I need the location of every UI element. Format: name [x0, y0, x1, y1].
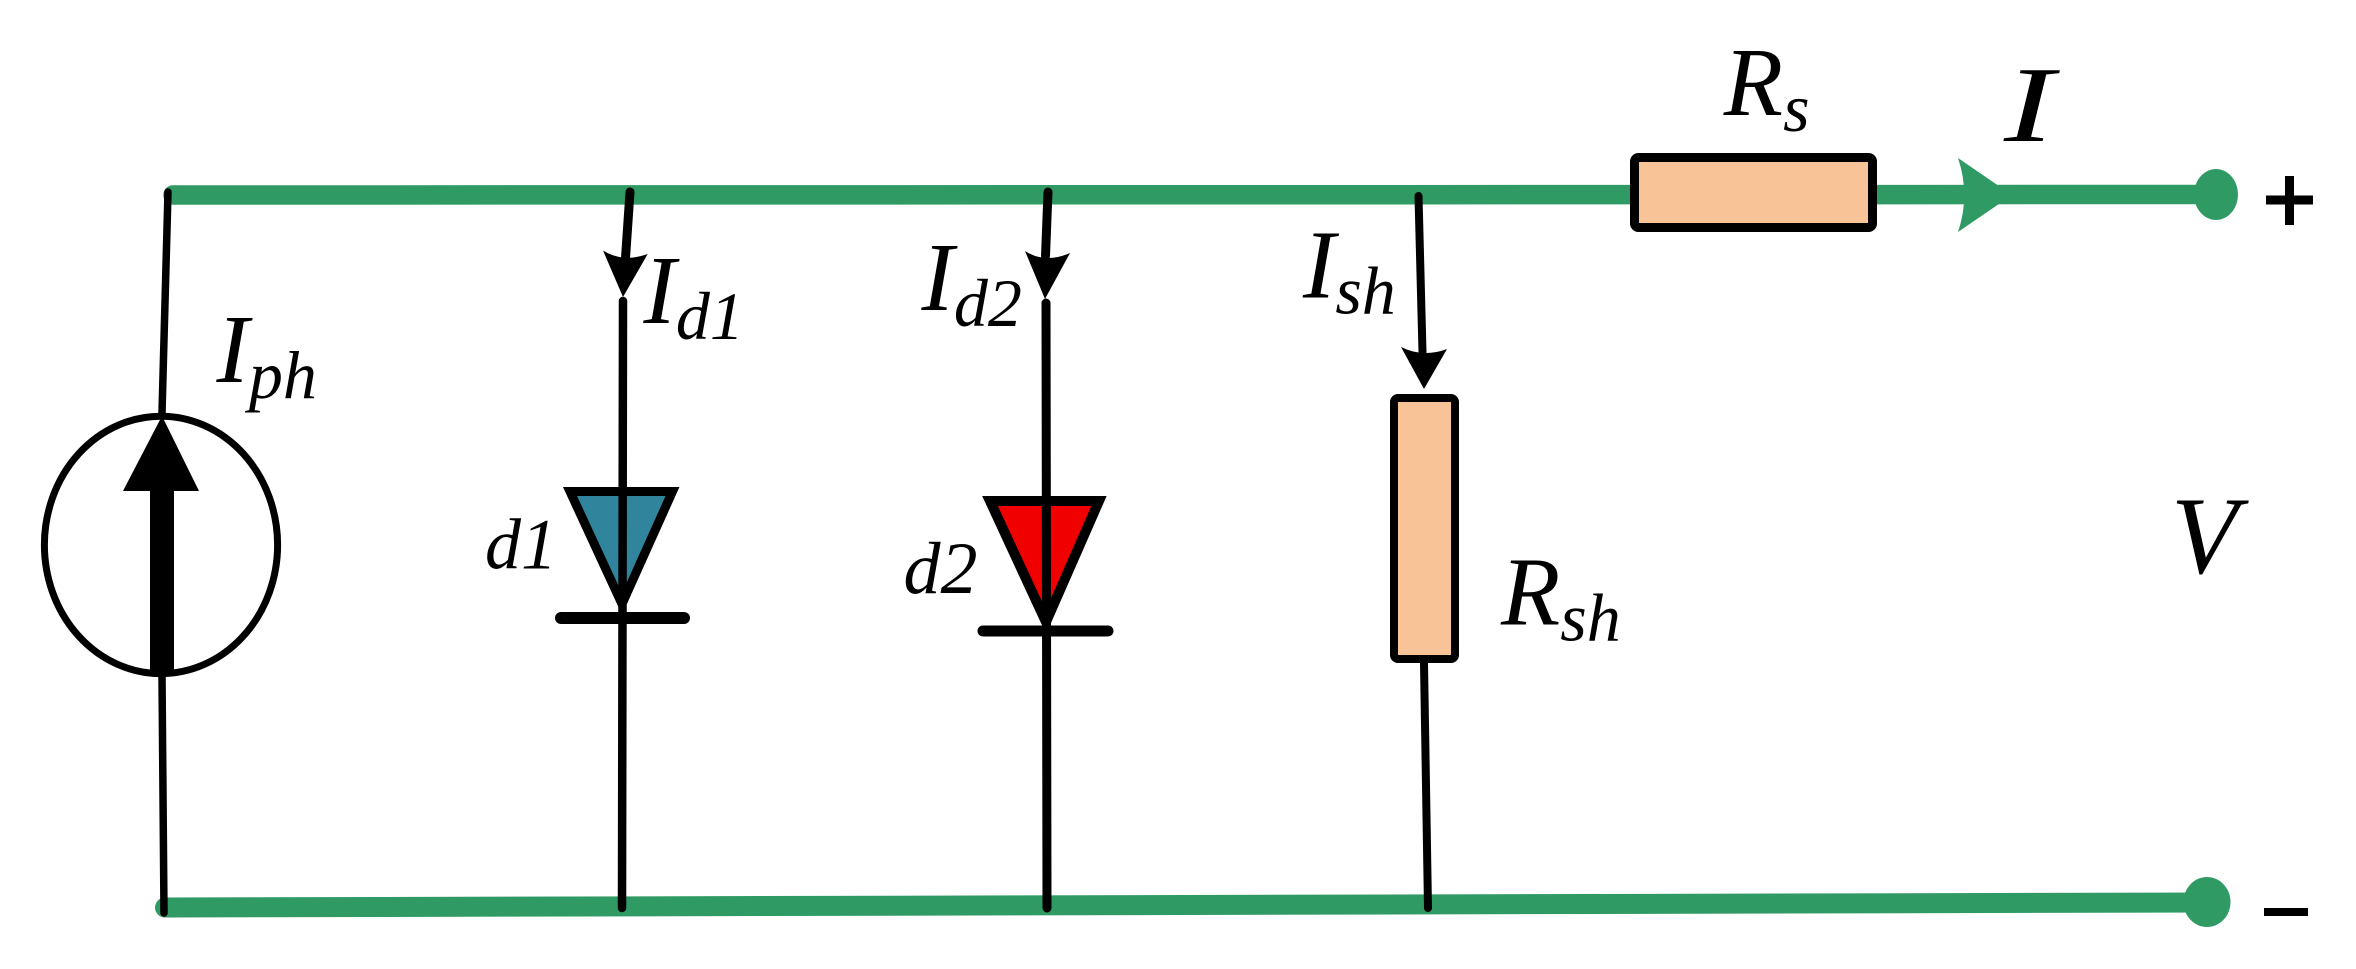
svg-text:Ish: Ish [1302, 212, 1396, 329]
svg-text:Rs: Rs [1723, 29, 1810, 146]
svg-text:Iph: Iph [216, 296, 317, 413]
svg-text:I: I [2003, 46, 2061, 165]
svg-text:Rsh: Rsh [1500, 539, 1621, 656]
svg-text:d2: d2 [904, 528, 978, 610]
svg-text:Id1: Id1 [643, 237, 744, 354]
svg-text:d1: d1 [485, 505, 557, 585]
svg-text:V: V [2171, 475, 2249, 597]
svg-text:Id2: Id2 [921, 224, 1022, 341]
